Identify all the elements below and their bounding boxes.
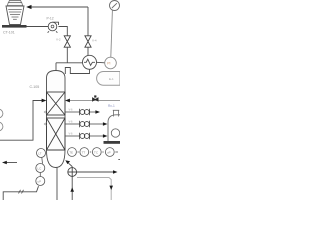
signal LC-LP (39, 173, 41, 177)
wire: pump discharge to valve V-2 riser (59, 27, 68, 36)
instrument LP (36, 177, 45, 186)
side tap line 3 (65, 135, 80, 137)
gear pump 2 (80, 121, 90, 127)
wire: stub down to column dome (55, 63, 57, 71)
column C-105 shell (47, 71, 66, 151)
reflux drum (97, 72, 120, 86)
svg-text:TT: TT (82, 151, 86, 155)
wire: tower basin to pump suction (27, 26, 49, 28)
wire: left outlet stub with arrow (5, 162, 17, 164)
instrument TC (92, 148, 101, 157)
column packed bed 2 (47, 118, 66, 150)
svg-text:uP: uP (107, 151, 111, 155)
svg-text:V-4: V-4 (92, 39, 97, 43)
wire: reboiler return riser (71, 167, 73, 201)
wire: exchanger right port to drum instrument (97, 61, 105, 64)
feed arrow into column (42, 99, 47, 103)
svg-text:V-6: V-6 (69, 131, 73, 135)
svg-text:V-6: V-6 (69, 107, 73, 111)
cooling tower CT-101 lid (7, 1, 22, 6)
instrument LC (36, 164, 45, 173)
side tap line 1 (65, 111, 80, 113)
left wall nozzle tick upper (44, 111, 46, 114)
wire: exchanger bottom reflux return to column dome (65, 68, 89, 75)
wire: gray bypass line down with arrow (77, 178, 111, 201)
signal LT-LC (41, 158, 44, 164)
valve V-2 (64, 36, 70, 47)
svg-text:PI: PI (107, 62, 110, 66)
column packed bed 1 (47, 92, 66, 115)
svg-text:LT: LT (38, 152, 41, 156)
wire: flow element to right edge with arrow (77, 171, 115, 173)
cooling tower internal trays (8, 10, 22, 20)
instrument TE (68, 148, 77, 157)
control valve on product line (93, 95, 99, 101)
instrument uP right (105, 148, 114, 157)
svg-text:uP: uP (38, 180, 42, 184)
wire: product line with control valve (69, 100, 121, 102)
svg-text:V-6: V-6 (69, 119, 73, 123)
instrument stub circle left edge lower (0, 122, 3, 131)
column bottom head (47, 150, 66, 168)
svg-text:TE: TE (69, 151, 73, 155)
reactor top nozzle (113, 110, 119, 116)
cooling tower CT-101 body (6, 6, 24, 25)
svg-text:P-12: P-12 (47, 17, 54, 21)
wire: bottom left drain line with breaks (3, 186, 38, 200)
reactor shell (108, 115, 120, 141)
cooling tower base slab (2, 25, 27, 28)
gear pump 1 (80, 109, 90, 115)
flow element circle-cross (68, 168, 77, 177)
signal dash at right edge (118, 159, 120, 161)
pump P-12 (48, 22, 59, 32)
wire: from check instrument down to drum instrument (111, 10, 113, 57)
wire: riser from overhead line down to valve V-4 (87, 7, 89, 36)
heat exchanger (83, 55, 97, 69)
wire: header from column stub to exchanger left port (56, 62, 83, 64)
svg-text:Rx-1: Rx-1 (108, 104, 115, 108)
svg-text:E-1: E-1 (109, 77, 114, 81)
instrument circle on drum (105, 57, 117, 69)
instrument LT (37, 149, 46, 158)
svg-text:CT-101: CT-101 (3, 31, 15, 35)
check instrument top right (110, 1, 120, 11)
side tap line 2 (65, 123, 80, 125)
reactor internal circle (111, 129, 119, 137)
instrument stub circle left edge upper (0, 109, 3, 118)
svg-text:V-2: V-2 (56, 38, 61, 42)
signal dash TC-LP (102, 151, 103, 153)
up arrow on riser (70, 187, 74, 192)
reactor base slab (104, 141, 121, 144)
gear pump 3 (80, 133, 90, 139)
left wall nozzle tick lower (44, 123, 46, 126)
signal dash TT-TC (90, 151, 91, 153)
arrow into column bottom (69, 163, 73, 166)
signal dash TE-TT (78, 151, 79, 153)
svg-text:C-105: C-105 (30, 85, 40, 89)
wire: overhead return line to tower with arrow (30, 6, 88, 8)
instrument TT (80, 148, 89, 157)
signal dash LP-edge (115, 151, 118, 153)
wire: feed line bottom left (0, 101, 43, 141)
wire: valve V-2 outlet down to header (66, 47, 68, 63)
wire: valve V-4 outlet to exchanger top (87, 47, 89, 55)
wire: bottoms outlet (56, 167, 58, 200)
valve V-4 (85, 36, 91, 47)
